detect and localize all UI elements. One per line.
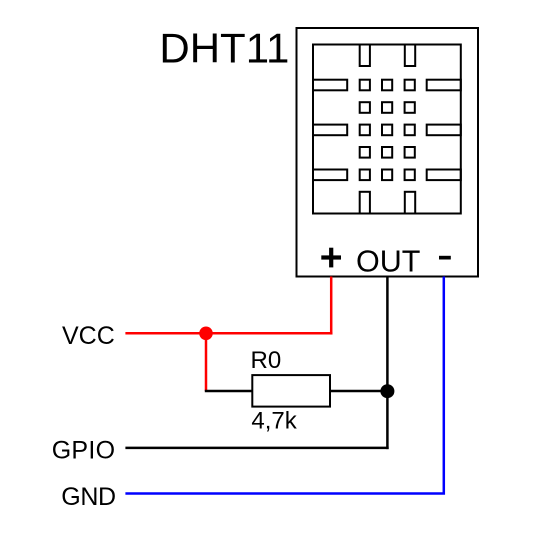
svg-text:DHT11: DHT11 — [159, 25, 289, 72]
resistor R0 body — [252, 375, 330, 407]
pin label - (GND pin) — [439, 256, 451, 260]
resistor R0 right lead — [330, 390, 387, 393]
wire VCC riser to + pin (red) — [330, 277, 333, 335]
junction dot VCC node — [199, 327, 213, 341]
grille right vent slots — [427, 80, 461, 180]
grille hole matrix — [360, 80, 415, 180]
wire red stub from junction down to resistor lead — [205, 333, 208, 391]
sensor grille frame — [313, 45, 461, 214]
svg-text:GPIO: GPIO — [52, 436, 116, 464]
svg-text:OUT: OUT — [356, 245, 420, 279]
svg-text:GND: GND — [61, 483, 115, 511]
wire GND blue: - pin down and left to GND label — [125, 277, 443, 494]
svg-text:4,7k: 4,7k — [251, 407, 297, 434]
grille bottom vent slots — [360, 192, 415, 214]
grille top vent slots — [360, 45, 415, 67]
pin label + (VCC pin) — [321, 248, 341, 268]
junction dot OUT node — [380, 384, 394, 398]
grille left vent slots — [313, 80, 347, 180]
wire OUT pin vertical segment (black) — [386, 277, 389, 450]
resistor R0 left lead — [205, 390, 253, 393]
svg-text:R0: R0 — [251, 347, 282, 374]
wire VCC horizontal segment (red) — [125, 332, 332, 335]
sensor U1 body outline — [297, 28, 479, 277]
svg-text:VCC: VCC — [62, 322, 115, 350]
wire GPIO horizontal segment (black) — [125, 447, 388, 450]
